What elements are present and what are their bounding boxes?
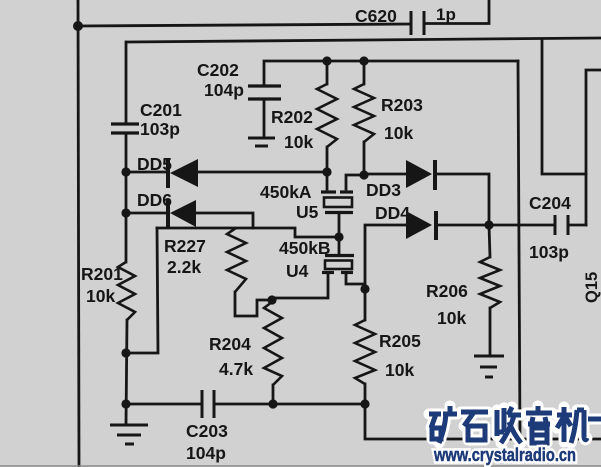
wire R205 bottom lead (364, 384, 367, 404)
node U4 right / R205 line (360, 284, 369, 293)
wire C201 to DD5 node (125, 135, 128, 172)
wire U5 bottom center lead (338, 213, 341, 237)
wire R203 top lead (363, 61, 366, 84)
node R205 bottom (360, 399, 369, 408)
svg-text:103p: 103p (140, 119, 180, 139)
svg-text:R227: R227 (164, 236, 206, 256)
wire C620 right to up stub (424, 0, 489, 24)
svg-text:DD4: DD4 (375, 203, 410, 223)
svg-text:10k: 10k (384, 123, 413, 143)
node DD6 left (121, 208, 130, 217)
svg-text:450kA: 450kA (260, 182, 312, 202)
capacitor C203 (202, 390, 214, 418)
svg-text:C202: C202 (197, 60, 239, 80)
svg-text:10k: 10k (86, 286, 115, 306)
resistor R202 (317, 84, 337, 147)
node U5 bottom / U4 top (334, 232, 343, 241)
svg-text:C203: C203 (186, 421, 228, 441)
svg-text:103p: 103p (529, 242, 569, 262)
svg-text:10k: 10k (284, 132, 313, 152)
wire DD3 cathode right and drop to DD4 node (435, 174, 489, 225)
wire R204 bottom lead (272, 385, 275, 404)
wire left outer vertical bus (78, 0, 79, 467)
svg-text:DD5: DD5 (137, 154, 172, 174)
resistor R205 (355, 320, 375, 384)
svg-text:450kB: 450kB (279, 238, 331, 258)
node DD3-DD4 cathode / C204 / R206 (484, 220, 493, 229)
ground below C202 (248, 138, 275, 146)
svg-text:R205: R205 (379, 331, 421, 351)
scan bottom edge line (0, 465, 601, 467)
resistor R227 (227, 228, 246, 292)
svg-text:R206: R206 (426, 281, 468, 301)
wire R227 net down-left vertical (126, 228, 158, 353)
diode DD5 (168, 158, 198, 188)
node DD5 left (121, 167, 130, 176)
svg-text:DD6: DD6 (137, 190, 172, 210)
wire U4 right pin to R205 vertical (346, 274, 365, 284)
capacitor C201 (111, 124, 139, 133)
svg-text:R202: R202 (271, 107, 313, 127)
svg-text:2.2k: 2.2k (167, 257, 201, 277)
wire DD6/R227 net rail (157, 228, 339, 237)
capacitor C204 (555, 215, 568, 235)
wire DD5 node to DD6 node to R201 (125, 172, 128, 262)
capacitor C202 (248, 86, 281, 99)
resistor R203 (354, 84, 374, 142)
ceramic filter U4 (322, 256, 354, 273)
resistor R204 (264, 302, 282, 385)
node R203 bottom / DD3 anode (359, 170, 368, 179)
node R202 bottom / DD5 anode (322, 167, 331, 176)
wire C202 net right vertical drop (518, 61, 520, 438)
wire C202 net rail (264, 61, 518, 85)
svg-text:DD3: DD3 (366, 180, 401, 200)
wire R202 bottom lead (326, 147, 329, 172)
svg-text:C620: C620 (355, 6, 397, 26)
svg-text:104p: 104p (204, 80, 244, 100)
resistor R206 (480, 257, 500, 308)
node R201 bottom (121, 348, 130, 357)
svg-text:Q15: Q15 (583, 272, 601, 303)
wire DD5 anode to R202 node (198, 171, 327, 174)
svg-text:10k: 10k (437, 308, 466, 328)
wire R202 top lead (326, 61, 329, 84)
wire upper long horizontal rail (127, 38, 601, 42)
wire bottom rail left of C203 (126, 403, 202, 406)
wire R203 bottom lead (363, 142, 366, 175)
wire DD5 row (126, 171, 168, 174)
capacitor C620 (411, 11, 424, 35)
svg-text:R201: R201 (81, 264, 123, 284)
svg-text:10k: 10k (385, 360, 414, 380)
wire U5 left pin (326, 172, 329, 189)
svg-text:104p: 104p (186, 443, 226, 463)
node junction top-left (73, 21, 83, 31)
wire DD6 row left (126, 212, 168, 215)
wire U4 left pin to R204 node (272, 274, 328, 302)
node ground bottom-left (121, 399, 130, 408)
wire R201 bottom lead to ground node (126, 320, 127, 424)
wire R206 top lead (489, 225, 490, 257)
wire inner-left vertical top segment to C201 (125, 42, 128, 123)
svg-text:C204: C204 (529, 193, 571, 213)
wire bottom rail right of C203 (214, 403, 365, 406)
wire top horizontal to C620 (78, 24, 411, 26)
svg-text:R204: R204 (209, 334, 251, 354)
svg-text:C201: C201 (140, 100, 182, 120)
node R202 top (322, 56, 331, 65)
ceramic filter U5 (321, 192, 353, 213)
svg-text:4.7k: 4.7k (219, 359, 253, 379)
node R204 top (267, 295, 276, 304)
wire DD4 anode left and drop (365, 225, 406, 320)
svg-text:U5: U5 (296, 202, 319, 222)
node R203 top (359, 56, 368, 65)
diode DD3 (406, 160, 435, 190)
ground main bottom-left (110, 425, 148, 444)
wire DD6 anode right and drop (196, 213, 253, 228)
wire R227 bottom jog to R204 node (235, 292, 272, 316)
wire right box edge (586, 70, 601, 225)
wire C204 right to box pin (568, 224, 586, 227)
wire DD3 row from R203 node (364, 173, 406, 176)
wire U5 right pin (346, 175, 364, 189)
wire U4 top center lead (338, 237, 341, 254)
node C203 right / R204 bottom (268, 399, 277, 408)
svg-text:R203: R203 (381, 95, 423, 115)
ground below R206 (474, 356, 504, 377)
diode DD4 (406, 211, 436, 240)
wire mid-right horizontal link (542, 40, 586, 174)
wire R206 bottom lead (489, 308, 492, 354)
diode DD6 (168, 199, 196, 227)
svg-text:U4: U4 (286, 261, 309, 281)
svg-text:www.crystalradio.cn: www.crystalradio.cn (433, 445, 576, 465)
wire DD4 cathode to C204 (436, 224, 555, 227)
wire bottom jog down and right edge run (365, 404, 601, 439)
svg-text:1p: 1p (436, 5, 456, 24)
wire C202 bottom lead to ground (263, 99, 266, 136)
resistor R201 (118, 262, 135, 320)
